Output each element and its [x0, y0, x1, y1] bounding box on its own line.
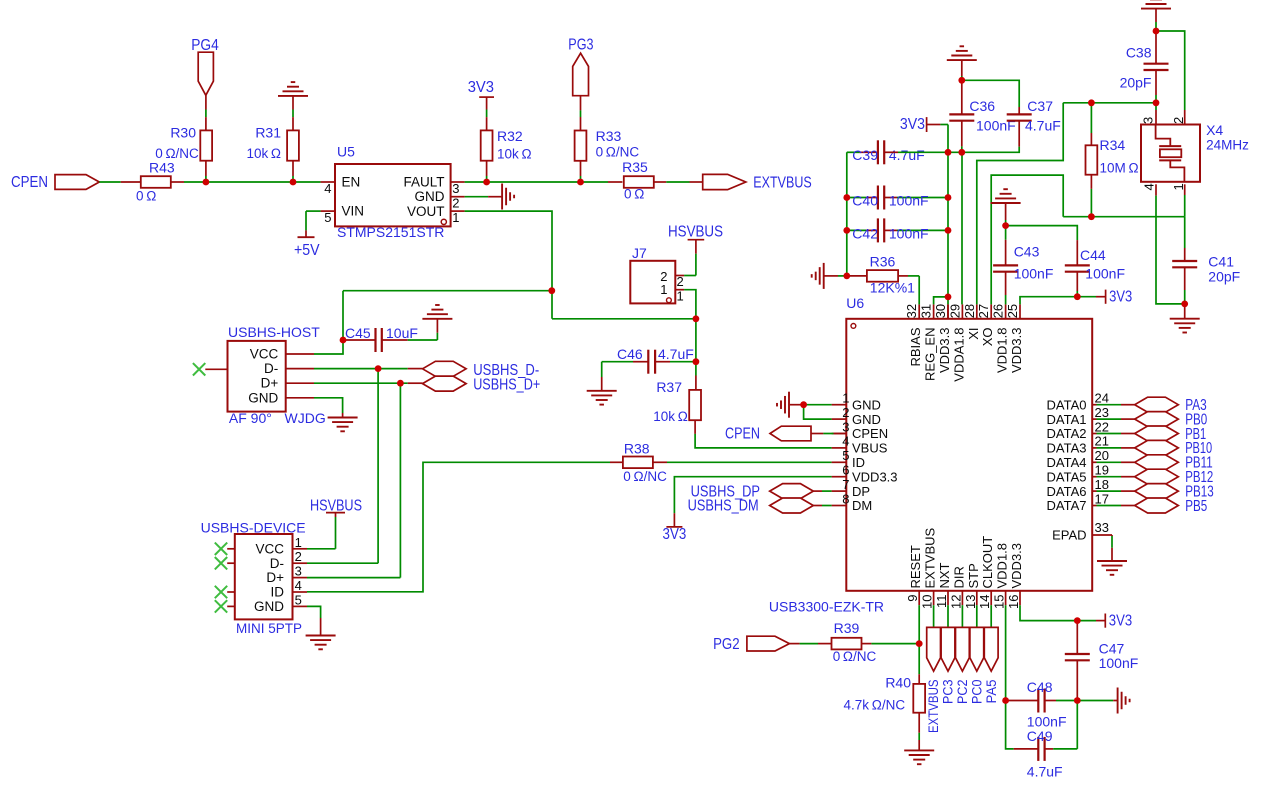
U6 pin name DATA0 — [1047, 397, 1087, 412]
R36 right lead — [898, 275, 919, 277]
wire J7 pin1 down — [684, 290, 696, 319]
svg-text:100nF: 100nF — [1099, 655, 1139, 671]
U6 bottom pin name DIR — [951, 566, 966, 588]
U6 top pin name REG_EN — [923, 328, 938, 381]
svg-text:4.7uF: 4.7uF — [1025, 118, 1061, 134]
svg-text:CPEN: CPEN — [725, 425, 760, 442]
C49 right lead — [1045, 748, 1078, 750]
U6 pin number 5 — [842, 448, 849, 463]
label PG3 — [568, 37, 593, 54]
R39 right lead — [862, 643, 920, 645]
junction at R31 — [290, 179, 297, 186]
U6 pin name DP 7 — [852, 484, 870, 499]
wire C45 left lead — [345, 339, 376, 341]
wire XO — [991, 175, 1063, 304]
resistor R33 — [575, 131, 587, 161]
label R34 — [1100, 137, 1126, 153]
label 3V3 C47 — [1109, 613, 1132, 630]
capacitor C49 — [1038, 737, 1044, 761]
U6 bottom pin name VDD1.8 — [995, 543, 1010, 589]
U6 pin number 3 — [842, 419, 849, 434]
label C43 — [1014, 244, 1040, 260]
svg-text:R43: R43 — [149, 159, 175, 175]
wire XO row — [1063, 216, 1185, 218]
svg-text:0 Ω/NC: 0 Ω/NC — [155, 146, 199, 161]
wire DEVICE D+ — [307, 577, 400, 579]
value R37 — [653, 409, 688, 424]
label R40 — [885, 674, 911, 690]
wire C49 left — [1006, 701, 1014, 749]
svg-text:C46: C46 — [617, 346, 643, 362]
flag PC0 — [970, 627, 984, 671]
wire pin12 to flag — [961, 605, 963, 627]
U6 pin name DATA2 — [1047, 426, 1087, 441]
DEVICE pin name GND — [254, 599, 284, 614]
value R36 — [870, 280, 915, 296]
svg-text:100nF: 100nF — [1014, 266, 1054, 282]
svg-text:CPEN: CPEN — [852, 426, 888, 441]
port PG2 — [747, 636, 790, 651]
value C39 — [889, 147, 925, 163]
label USBHS_D+ — [473, 377, 540, 394]
C47 top lead — [1076, 621, 1078, 654]
wire C39 left corner — [847, 151, 860, 153]
svg-text:R34: R34 — [1100, 137, 1126, 153]
wire J7 node down — [695, 319, 697, 376]
U6 pin number 17 — [1095, 491, 1109, 506]
wire FAULT to node — [451, 181, 487, 183]
U6 pin number 7 — [842, 477, 849, 492]
svg-text:EPAD: EPAD — [1052, 528, 1086, 543]
J7 pin2 stub — [675, 275, 684, 277]
svg-text:DATA6: DATA6 — [1047, 484, 1087, 499]
svg-text:PB5: PB5 — [1185, 498, 1207, 515]
svg-text:VIN: VIN — [342, 204, 365, 219]
svg-text:1: 1 — [677, 289, 684, 304]
3V3 right of C47 — [1077, 614, 1105, 628]
X4 pin number 4 — [1141, 183, 1156, 190]
ground below C41 — [1170, 319, 1200, 333]
svg-text:C44: C44 — [1080, 247, 1106, 263]
U6 pin name DATA6 — [1047, 484, 1087, 499]
junction C41 bottom — [1181, 301, 1188, 308]
svg-text:32: 32 — [904, 304, 919, 318]
svg-text:10: 10 — [920, 595, 935, 609]
resistor R40 — [913, 684, 925, 713]
label 3V3 down — [663, 526, 687, 543]
power 3V3 bar R32 — [479, 96, 494, 98]
svg-text:2: 2 — [295, 549, 302, 564]
wire C49 up — [1076, 701, 1078, 749]
U6 pin number 33 — [1095, 520, 1109, 535]
svg-text:3: 3 — [452, 181, 459, 196]
U6 bottom pin name NXT — [937, 562, 952, 588]
svg-text:DATA7: DATA7 — [1047, 498, 1087, 513]
junction U6 GND — [800, 401, 807, 408]
DEVICE left stub 1 — [227, 548, 235, 550]
capacitor C47 — [1065, 654, 1090, 660]
label USBHS-DEVICE — [201, 520, 306, 536]
label R35 — [622, 159, 648, 175]
port USBHS_DM — [770, 498, 814, 513]
svg-text:DATA5: DATA5 — [1047, 469, 1087, 484]
svg-text:3V3: 3V3 — [468, 79, 494, 96]
U6 pin name DM 8 — [852, 498, 872, 513]
U6 top pin number 25 — [1005, 304, 1020, 318]
U6 top pin number 30 — [933, 304, 948, 318]
wire to R37 — [695, 376, 697, 390]
svg-text:NXT: NXT — [937, 562, 952, 588]
IC U6 body — [846, 319, 1092, 591]
C40 leads — [847, 197, 948, 199]
wire X4 pin1 down — [1184, 195, 1186, 217]
svg-text:CLKOUT: CLKOUT — [980, 536, 995, 589]
rail stub pin30 — [947, 304, 949, 318]
svg-text:27: 27 — [976, 304, 991, 318]
junction C48 left — [1002, 697, 1009, 704]
junction C46 — [693, 358, 700, 365]
svg-text:8: 8 — [842, 491, 849, 506]
U6 pin number 6 — [842, 463, 849, 478]
svg-text:C39: C39 — [852, 147, 878, 163]
U6 top stub 32 — [918, 304, 920, 318]
DEVICE right stubs — [293, 549, 308, 607]
label C38 — [1126, 45, 1152, 61]
wire node to R33 node — [487, 181, 581, 183]
label X4 — [1206, 122, 1223, 138]
EPAD green — [1111, 536, 1113, 548]
svg-text:ID: ID — [852, 455, 865, 470]
label USBHS_DP — [691, 483, 760, 500]
junction at R32 — [483, 179, 490, 186]
value R31 — [246, 146, 281, 161]
svg-text:14: 14 — [977, 595, 992, 609]
svg-text:VDD3.3: VDD3.3 — [852, 469, 898, 484]
label PB12 — [1185, 469, 1213, 486]
svg-text:3: 3 — [842, 419, 849, 434]
DEVICE left stub 2 — [227, 562, 235, 564]
flag PA5 — [984, 627, 998, 671]
label PB0 — [1185, 411, 1207, 428]
wire DATA0 to port — [1092, 404, 1135, 406]
label USBHS_D- — [473, 362, 539, 379]
svg-text:10k Ω: 10k Ω — [653, 409, 688, 424]
label EXTVBUS — [753, 174, 811, 191]
U5 pin number 4 — [324, 181, 331, 196]
capacitor C48 — [1038, 689, 1044, 713]
svg-text:PG2: PG2 — [713, 636, 740, 653]
U6 bottom stub 15 — [1005, 591, 1007, 605]
value X4 — [1206, 138, 1249, 153]
svg-text:MINI 5PTP: MINI 5PTP — [236, 621, 302, 636]
svg-text:GND: GND — [415, 189, 445, 204]
U6 pin number 22 — [1095, 419, 1109, 434]
ground below HOST — [328, 418, 358, 432]
wire pin16 — [1020, 605, 1077, 620]
power HSVBUS bar — [688, 239, 705, 241]
label HSVBUS DEVICE — [310, 498, 362, 515]
HOST pin name GND — [248, 390, 278, 405]
label C37 — [1027, 98, 1053, 114]
U6 top stub 30 — [947, 304, 949, 318]
svg-text:PA5: PA5 — [983, 679, 999, 703]
C37 top lead — [1018, 107, 1020, 114]
svg-text:R38: R38 — [624, 440, 650, 456]
svg-text:11: 11 — [934, 595, 949, 609]
U6 top pin number 32 — [904, 304, 919, 318]
junction R39 — [916, 640, 923, 647]
R40 bottom lead — [918, 713, 920, 751]
ground below DEVICE — [306, 636, 336, 650]
capacitor C38 — [1144, 64, 1169, 70]
svg-text:VDD1.8: VDD1.8 — [995, 543, 1010, 589]
wire R37 VBUS wire — [695, 434, 832, 448]
svg-text:R36: R36 — [870, 254, 896, 270]
svg-text:33: 33 — [1095, 520, 1109, 535]
U6 bottom stub 12 — [961, 591, 963, 605]
port USBHS_DP — [770, 484, 814, 499]
junction rail pin31 — [945, 294, 952, 301]
DEVICE left stub 5 — [227, 605, 235, 607]
wire VOUT down — [465, 211, 552, 319]
HOST shield stub — [205, 368, 227, 370]
wire HOST D+ — [314, 382, 423, 384]
C41 bottom lead — [1184, 267, 1186, 304]
U6 bottom pin name STP — [966, 563, 981, 588]
flag PG4 — [198, 52, 213, 95]
J7 pin1 indicator — [667, 298, 672, 303]
label PB10 — [1185, 440, 1212, 457]
junction C36 top — [958, 77, 965, 84]
resistor R39 — [832, 638, 862, 650]
IC U5 body — [335, 164, 451, 226]
svg-text:GND: GND — [248, 390, 278, 405]
flag PC3 — [941, 627, 955, 671]
U5 pin name GND — [415, 189, 445, 204]
junction D- — [375, 365, 382, 372]
flag EXTVBUS — [927, 627, 941, 671]
U6 pin name CPEN 3 — [852, 426, 888, 441]
svg-text:12: 12 — [948, 595, 963, 609]
flag PG3 — [573, 53, 589, 95]
wire node to node R31 — [206, 181, 293, 183]
U6 top stub 26 — [1005, 304, 1007, 318]
C36 bottom lead — [961, 121, 963, 153]
value C45 — [386, 325, 418, 341]
no-connect X DEVICE pin 2 — [215, 557, 227, 569]
svg-text:D-: D- — [264, 361, 278, 376]
value C47 — [1099, 655, 1139, 671]
ground right of U5 GND — [502, 184, 514, 210]
label PC0 — [968, 679, 984, 704]
capacitor C46 — [648, 350, 655, 374]
port PB5 — [1135, 498, 1179, 513]
label EXTVBUS — [925, 680, 941, 734]
U6 bottom stub 11 — [947, 591, 949, 605]
label PA3 — [1185, 397, 1207, 414]
U6 top stub 28 — [976, 304, 978, 318]
U6 pin number 20 — [1095, 448, 1109, 463]
resistor R30 — [200, 130, 212, 160]
label 3V3 rail — [900, 116, 925, 133]
junction left R36 — [843, 273, 850, 280]
svg-text:R32: R32 — [497, 128, 523, 144]
svg-text:24MHz: 24MHz — [1206, 138, 1249, 153]
no-connect X DEVICE pin 1 — [215, 543, 227, 555]
svg-text:WJDG: WJDG — [285, 410, 326, 426]
DEVICE pin number 4 — [295, 578, 302, 593]
junction C48 right — [1074, 697, 1081, 704]
capacitor C41 — [1172, 261, 1197, 267]
wire R35 to port — [654, 181, 703, 183]
svg-text:USBHS_DM: USBHS_DM — [688, 498, 759, 515]
svg-text:C41: C41 — [1208, 254, 1234, 270]
U5 pin name FAULT — [403, 175, 444, 190]
value C38 — [1120, 75, 1152, 91]
wire U5 VIN — [306, 211, 335, 237]
label U5 — [337, 144, 355, 160]
label PB11 — [1185, 455, 1213, 472]
svg-text:PG3: PG3 — [568, 37, 593, 54]
svg-text:18: 18 — [1095, 477, 1109, 492]
C47 bottom lead — [1076, 660, 1078, 700]
port PB11 — [1135, 455, 1179, 470]
C41 gnd stem — [1184, 304, 1186, 319]
wire EPAD — [1092, 535, 1112, 536]
U6 bottom stub 10 — [933, 591, 935, 605]
svg-text:2: 2 — [842, 405, 849, 420]
U6 GND earth lead — [790, 404, 804, 406]
svg-text:4: 4 — [1141, 183, 1156, 190]
port CPEN — [55, 175, 99, 190]
ground right of C45 — [422, 305, 452, 319]
value 0Ohm R43 — [136, 188, 156, 203]
U6 pin name DATA5 — [1047, 469, 1087, 484]
label 3V3 top — [468, 79, 494, 96]
svg-text:17: 17 — [1095, 491, 1109, 506]
wire C46 right lead — [655, 361, 696, 363]
value USB3300-EZK-TR — [769, 599, 884, 615]
svg-text:4: 4 — [324, 181, 331, 196]
svg-text:15: 15 — [992, 595, 1007, 609]
svg-text:0 Ω/NC: 0 Ω/NC — [596, 144, 640, 159]
value C42 — [889, 226, 929, 242]
capacitor C43 — [993, 265, 1018, 271]
label C39 — [852, 147, 878, 163]
svg-text:16: 16 — [1006, 595, 1021, 609]
DEVICE pin number 5 — [295, 592, 302, 607]
svg-text:20pF: 20pF — [1120, 75, 1152, 91]
svg-text:DATA1: DATA1 — [1047, 412, 1087, 427]
label PG2 — [713, 636, 740, 653]
HOST pin name VCC — [250, 347, 279, 362]
svg-text:HSVBUS: HSVBUS — [668, 224, 723, 241]
svg-text:R39: R39 — [834, 620, 860, 636]
U6 bottom pin number 14 — [977, 595, 992, 609]
label HSVBUS J7 — [668, 224, 723, 241]
value AF 90 — [229, 410, 272, 426]
label USBHS_DM — [688, 498, 759, 515]
value R33 — [596, 144, 640, 159]
U6 pin number 8 — [842, 491, 849, 506]
C44 top lead — [1076, 240, 1078, 265]
3V3 right of C44 — [1077, 290, 1105, 304]
svg-text:VDDA1.8: VDDA1.8 — [951, 328, 966, 382]
wire U5 VOUT — [451, 210, 465, 212]
U5 pin name EN — [342, 175, 361, 190]
C38 bottom lead — [1155, 70, 1157, 103]
junction top gnd — [1153, 28, 1160, 35]
svg-text:20pF: 20pF — [1208, 269, 1240, 285]
resistor R37 — [689, 390, 701, 420]
junction at R33 — [577, 179, 584, 186]
svg-text:21: 21 — [1095, 434, 1109, 449]
junction left C40 — [843, 194, 850, 201]
svg-text:USBHS_D+: USBHS_D+ — [473, 377, 540, 394]
svg-text:VOUT: VOUT — [407, 204, 445, 219]
junction VOUT branch — [548, 287, 555, 294]
wire DATA7 to port — [1092, 505, 1135, 507]
svg-text:R30: R30 — [170, 125, 196, 141]
svg-text:XI: XI — [966, 328, 981, 340]
svg-text:4.7uF: 4.7uF — [889, 147, 925, 163]
value C40 — [889, 193, 929, 209]
U6 bottom pin name CLKOUT — [980, 536, 995, 589]
svg-text:3: 3 — [1141, 117, 1156, 124]
resistor R32 — [481, 130, 493, 160]
ground below C46 — [587, 391, 617, 405]
R38 left lead — [610, 461, 623, 463]
port CPEN U6 — [770, 426, 811, 441]
U6 top pin number 27 — [976, 304, 991, 318]
wire XI — [977, 103, 1063, 305]
U6 pin name VBUS 4 — [852, 441, 888, 456]
svg-text:EXTVBUS: EXTVBUS — [923, 527, 938, 588]
svg-text:VBUS: VBUS — [852, 441, 888, 456]
svg-text:29: 29 — [947, 304, 962, 318]
wire VOUT to J7 row — [552, 318, 696, 320]
power 3V3 bar rail — [927, 117, 948, 132]
value R30 — [155, 146, 199, 161]
svg-text:C48: C48 — [1027, 679, 1053, 695]
svg-text:3: 3 — [295, 564, 302, 579]
svg-text:100nF: 100nF — [1085, 266, 1125, 282]
svg-text:100nF: 100nF — [1027, 713, 1067, 729]
svg-text:100nF: 100nF — [889, 193, 929, 209]
wire PG4 to R30 — [205, 95, 207, 130]
svg-text:30: 30 — [933, 304, 948, 318]
svg-text:GND: GND — [254, 599, 284, 614]
svg-text:R33: R33 — [596, 128, 622, 144]
X4 pin number 2 — [1171, 117, 1186, 124]
svg-text:4.7k Ω/NC: 4.7k Ω/NC — [844, 697, 906, 712]
label C44 — [1080, 247, 1106, 263]
U6 pin name DATA1 — [1047, 412, 1087, 427]
label C36 — [969, 98, 995, 114]
wire DATA3 to port — [1092, 447, 1135, 449]
connector J7 body — [630, 261, 675, 304]
svg-text:EXTVBUS: EXTVBUS — [753, 174, 811, 191]
U6 bottom stub 14 — [990, 591, 992, 605]
wire pin11 to flag — [947, 605, 949, 627]
U6 bottom pin number 10 — [920, 595, 935, 609]
EPAD stem — [1111, 548, 1113, 561]
U6 pin number 19 — [1095, 463, 1109, 478]
junction R34 top — [1088, 99, 1095, 106]
svg-text:D+: D+ — [266, 570, 284, 585]
wire left cap rail — [846, 152, 848, 276]
U6 pin name ID 5 — [852, 455, 865, 470]
